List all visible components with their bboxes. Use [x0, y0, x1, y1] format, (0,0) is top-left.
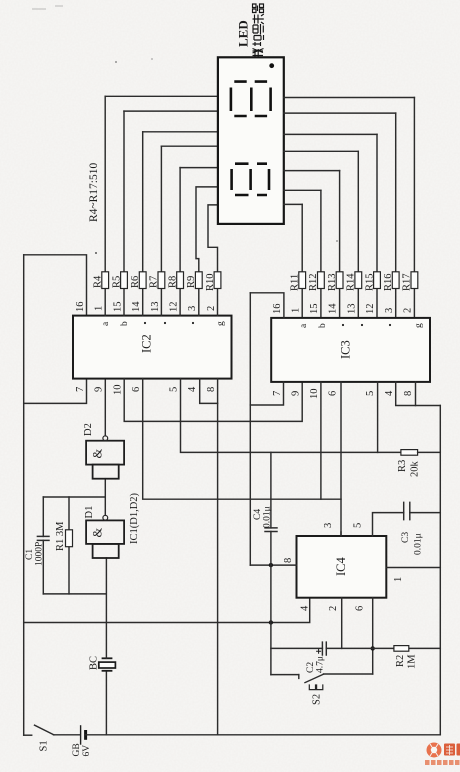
- svg-text:0.01μ: 0.01μ: [263, 506, 273, 528]
- IC3 box: [271, 318, 430, 382]
- svg-text:12: 12: [169, 302, 180, 313]
- svg-text:R14: R14: [346, 273, 357, 291]
- svg-text:R5: R5: [111, 276, 122, 288]
- battery GB positive plate: [80, 725, 82, 745]
- svg-text:6V: 6V: [82, 745, 92, 757]
- node junction dot reset line: [269, 620, 273, 624]
- svg-text:20k: 20k: [410, 461, 421, 478]
- resistor R5: [123, 111, 125, 316]
- wire IC3 pin10 to reset net: [320, 382, 322, 499]
- svg-text:R4: R4: [93, 275, 104, 288]
- svg-text:0.01μ: 0.01μ: [414, 533, 424, 555]
- wire S2 branch down: [271, 674, 299, 676]
- svg-text:g: g: [414, 323, 424, 328]
- wire IC3 pin8 to ground: [416, 382, 441, 406]
- svg-text:R16: R16: [383, 273, 394, 291]
- label C2 polarity plus: [316, 649, 321, 654]
- wire S1 to battery: [54, 734, 80, 736]
- svg-text:R11: R11: [290, 274, 301, 291]
- svg-text:GB: GB: [72, 743, 82, 756]
- capacitor C4 plates: [265, 528, 277, 532]
- label IC1 note dot speck: [95, 252, 97, 254]
- svg-text:12: 12: [365, 304, 376, 315]
- wire IC3 pin6 to IC4 pin3: [340, 382, 342, 536]
- resistor R1 body: [66, 530, 73, 547]
- wire IC3 pin16 VDD hook: [250, 293, 284, 318]
- switch S1 blade: [35, 725, 54, 735]
- svg-text:IC4: IC4: [334, 557, 348, 577]
- wire IC2 pin4 jog: [200, 379, 218, 404]
- wire IC4 pin2: [341, 598, 343, 649]
- svg-text:C2: C2: [306, 662, 316, 673]
- svg-text:1: 1: [393, 577, 404, 582]
- wire VDD top rail: [23, 255, 25, 735]
- svg-text:R12: R12: [308, 273, 319, 291]
- svg-text:S1: S1: [39, 740, 50, 751]
- digit right (7-segment 8): [231, 82, 271, 116]
- resistor R3 body: [401, 450, 418, 456]
- wire IC2 pin8 long ground run: [217, 379, 219, 735]
- wire IC2 pin7 riser to VDD: [24, 379, 87, 404]
- wire IC4 pin3 stub: [340, 532, 342, 536]
- svg-text:5: 5: [169, 387, 180, 392]
- svg-text:R1 3M: R1 3M: [55, 521, 66, 551]
- switch S2 lower contact: [324, 673, 373, 675]
- svg-text:D1: D1: [84, 506, 95, 519]
- gate D1 input bubble: [103, 515, 108, 520]
- IC4 box: [297, 536, 387, 598]
- node junction dot pin8/C4: [269, 563, 273, 567]
- svg-text:IC1(D1,D2): IC1(D1,D2): [129, 492, 140, 544]
- svg-text:15: 15: [309, 304, 320, 315]
- resistor R4: [104, 96, 106, 315]
- svg-text:4: 4: [300, 605, 311, 611]
- svg-text:14: 14: [131, 301, 142, 312]
- wire VDD distribution to IC4 pin8: [249, 293, 251, 565]
- crystal BC body: [99, 662, 116, 668]
- wire IC3 pin5 to R3 net: [377, 382, 379, 453]
- node junction dot pin6/C2 net: [371, 646, 375, 650]
- svg-text:4.7μ: 4.7μ: [316, 656, 326, 673]
- wire IC3 pin4 jog: [396, 382, 416, 406]
- svg-text:R2: R2: [395, 655, 406, 667]
- svg-text:16: 16: [75, 302, 86, 313]
- svg-text:4: 4: [187, 386, 198, 392]
- resistor R17: [413, 98, 415, 318]
- label display chinese (drawn strokes): [253, 4, 264, 58]
- svg-text:15: 15: [113, 302, 124, 313]
- svg-text:10: 10: [309, 389, 320, 400]
- svg-text:3: 3: [323, 523, 334, 528]
- watermark logo circle: [425, 743, 460, 766]
- switch S2 pushbutton actuator: [309, 684, 323, 689]
- watermark chinese text blocks: [444, 744, 460, 756]
- wire crystal to D1 gate input: [105, 558, 107, 658]
- decimal point: [269, 63, 274, 68]
- svg-text:3: 3: [384, 308, 395, 313]
- svg-text:C3: C3: [401, 532, 411, 543]
- svg-text:R4~R17:510: R4~R17:510: [88, 162, 100, 222]
- svg-text:b: b: [120, 321, 130, 326]
- svg-text:8: 8: [403, 391, 414, 396]
- digit left (7-segment 8): [232, 164, 269, 195]
- svg-text:R17: R17: [402, 273, 413, 291]
- resistor R12: [320, 190, 322, 318]
- resistor R8: [179, 168, 181, 316]
- svg-text:S2: S2: [312, 694, 323, 705]
- svg-text:7: 7: [75, 387, 86, 392]
- wire R3 bottom lead to ground rail: [418, 451, 441, 453]
- gate D2 body: [86, 441, 124, 465]
- svg-text:C4: C4: [253, 509, 263, 520]
- svg-text:D2: D2: [83, 423, 94, 436]
- resistor R14: [357, 151, 359, 318]
- crystal BC right plate: [102, 657, 113, 659]
- svg-text:R13: R13: [327, 273, 338, 291]
- resistor R11: [301, 204, 303, 317]
- svg-text:10: 10: [113, 385, 124, 396]
- switch S2 blade: [305, 674, 324, 682]
- svg-text:16: 16: [272, 304, 283, 315]
- svg-text:&: &: [91, 449, 105, 459]
- svg-text:6: 6: [328, 391, 339, 396]
- svg-text:R3: R3: [397, 460, 408, 472]
- wire IC4 pin5 to C3: [373, 513, 404, 536]
- resistor R16: [395, 113, 397, 318]
- svg-text:6: 6: [355, 606, 366, 611]
- gate D2 tab: [93, 465, 119, 479]
- svg-text:2: 2: [328, 606, 339, 611]
- resistor R9 with jog: [196, 187, 218, 316]
- resistor R15: [376, 134, 378, 317]
- svg-text:IC3: IC3: [339, 340, 353, 359]
- svg-text:4: 4: [384, 390, 395, 396]
- svg-text:1: 1: [291, 308, 302, 313]
- resistor R10 with jog: [208, 205, 218, 316]
- svg-text:R15: R15: [364, 273, 375, 291]
- wire left ground spine: [86, 734, 441, 736]
- wire rail end tick at switch: [24, 734, 32, 736]
- svg-text:b: b: [318, 323, 328, 328]
- gate D1 tab: [93, 544, 119, 558]
- svg-text:5: 5: [353, 523, 364, 528]
- wire IC2 pin6 down (reset net): [143, 379, 341, 500]
- wire timing net horizontal: [270, 452, 272, 674]
- svg-text:8: 8: [206, 387, 217, 392]
- svg-text:R6: R6: [130, 276, 141, 288]
- svg-text:R8: R8: [167, 276, 178, 288]
- svg-text:R7: R7: [149, 276, 160, 288]
- svg-text:3: 3: [187, 306, 198, 311]
- svg-text:1000P: 1000P: [35, 542, 45, 566]
- resistor R7: [160, 146, 162, 315]
- wire reset line from rail to IC4 pin4: [24, 598, 310, 623]
- crystal BC left plate: [102, 670, 113, 672]
- wire C3 to ground rail: [410, 512, 441, 514]
- wire S2 to IC4 pin6: [372, 598, 374, 674]
- resistor R2 body: [394, 646, 409, 652]
- wire IC2 pin16 VDD drop: [24, 255, 87, 316]
- resistor R1 wires: [68, 497, 70, 594]
- svg-text:BC: BC: [89, 656, 100, 670]
- svg-text:14: 14: [328, 303, 339, 314]
- svg-text:&: &: [91, 528, 105, 538]
- svg-text:13: 13: [150, 302, 161, 313]
- svg-text:2: 2: [206, 306, 217, 311]
- node C1/R1 right vertical: [43, 496, 105, 498]
- svg-text:9: 9: [291, 391, 302, 396]
- node C1/R1 left vertical: [43, 593, 105, 595]
- svg-text:1: 1: [94, 306, 105, 311]
- svg-text:8: 8: [283, 558, 294, 563]
- svg-text:R9: R9: [186, 276, 197, 288]
- wire IC3 pin7 riser: [250, 382, 283, 405]
- watermark small caption row: [425, 760, 460, 765]
- switch S2 contact tick: [298, 675, 300, 679]
- LED display box: [218, 57, 284, 224]
- svg-text:6: 6: [131, 387, 142, 392]
- resistor R13: [339, 171, 341, 318]
- battery GB negative plate: [84, 730, 87, 740]
- wire D1 bubble to D2 tab: [104, 479, 106, 516]
- resistor R6: [142, 132, 144, 316]
- speck marks: [32, 6, 63, 9]
- svg-text:1M: 1M: [407, 654, 418, 669]
- wire IC2 pin10 to IC3 pin9: [124, 379, 302, 422]
- wire oscillator row: rail to crystal: [105, 671, 107, 735]
- wire bottom ground rail: [439, 406, 441, 735]
- svg-text:g: g: [216, 321, 226, 326]
- svg-text:LED: LED: [236, 20, 251, 47]
- svg-text:7: 7: [272, 391, 283, 396]
- gate D1 body: [86, 520, 124, 544]
- wire IC2 pin5 to R3 top: [181, 379, 401, 453]
- svg-text:R10: R10: [205, 273, 216, 291]
- svg-text:IC2: IC2: [140, 334, 154, 353]
- svg-text:2: 2: [403, 308, 414, 313]
- wire D2 bubble to IC2 pin9: [104, 379, 106, 436]
- gate D2 input bubble: [103, 436, 108, 441]
- wire IC4 pin1 to ground rail: [386, 567, 440, 569]
- wire C2/R2 vertical net: [271, 647, 440, 649]
- IC2 box: [73, 316, 232, 379]
- svg-text:13: 13: [347, 304, 358, 315]
- capacitor C3 plates: [404, 502, 410, 519]
- svg-text:5: 5: [365, 391, 376, 396]
- svg-text:C1: C1: [25, 549, 35, 560]
- capacitor C1 plates: [37, 536, 49, 540]
- capacitor C1 wires: [42, 497, 44, 594]
- svg-text:9: 9: [94, 387, 105, 392]
- wire IC4 pin8 up to VDD line: [250, 564, 296, 566]
- capacitor C2 plates: [322, 642, 326, 655]
